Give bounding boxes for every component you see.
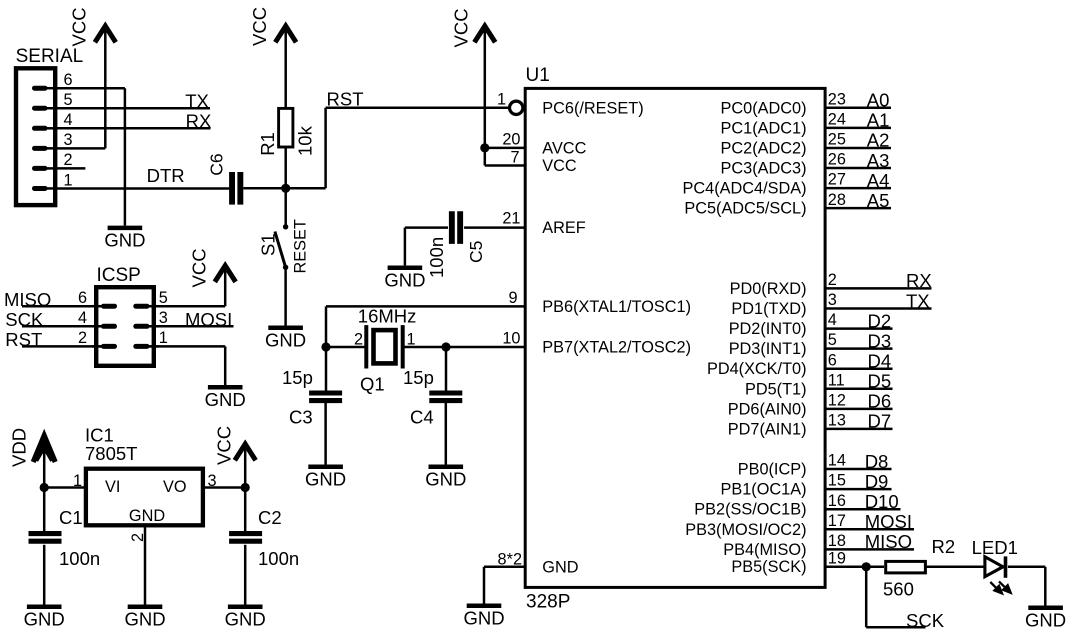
- switch S1: [258, 219, 310, 273]
- svg-text:C6: C6: [206, 153, 226, 175]
- connector J-SERIAL body: [16, 68, 55, 205]
- U1 pin 23 wire: [825, 90, 892, 111]
- svg-text:4: 4: [63, 111, 72, 129]
- wire SERIAL pin3 to VCC: [57, 28, 105, 148]
- svg-text:2: 2: [63, 151, 72, 169]
- svg-text:10k: 10k: [295, 125, 316, 156]
- node AVCC junction: [480, 143, 489, 152]
- U1 pin 28 wire: [825, 190, 892, 211]
- svg-text:ICSP: ICSP: [97, 265, 141, 286]
- node XTAL2 junction: [441, 342, 450, 351]
- svg-text:23: 23: [828, 90, 846, 108]
- LED1 emission arrows: [990, 581, 1010, 593]
- svg-text:PD4(XCK/T0): PD4(XCK/T0): [707, 360, 807, 378]
- pin label PB5(SCK): [731, 558, 806, 576]
- ICSP pin 1: [136, 329, 168, 347]
- pin label GND (U1): [542, 558, 578, 576]
- pin label AVCC: [542, 139, 586, 157]
- wire ICSP pin5 to VCC: [147, 268, 225, 307]
- U1 pin 17 wire: [825, 511, 915, 532]
- connector ICSP body: [96, 287, 154, 366]
- svg-text:1: 1: [497, 90, 506, 108]
- pin label PD5(T1): [745, 380, 807, 398]
- svg-text:5: 5: [63, 91, 72, 109]
- U1 pin10 number: [502, 330, 520, 348]
- net label MOSI: [185, 309, 232, 330]
- power VCC (SERIAL): [69, 7, 116, 46]
- wire LED to GND: [1008, 567, 1045, 606]
- SERIAL pin 1: [35, 171, 73, 189]
- svg-text:RST: RST: [327, 88, 364, 109]
- ICSP pin 2: [78, 329, 115, 347]
- svg-text:PC2(ADC2): PC2(ADC2): [721, 139, 807, 157]
- svg-text:VCC: VCC: [451, 8, 472, 47]
- svg-text:PD1(TXD): PD1(TXD): [731, 300, 806, 318]
- connector ICSP label: [97, 265, 141, 286]
- svg-text:AVCC: AVCC: [542, 139, 586, 157]
- pin label PC3(ADC3): [721, 160, 807, 178]
- svg-text:VI: VI: [105, 478, 120, 496]
- U1 pin 18 wire: [825, 531, 915, 552]
- svg-text:PD5(T1): PD5(T1): [745, 380, 807, 398]
- svg-text:1: 1: [159, 329, 168, 347]
- wire VDD to IC1 pin1: [44, 486, 86, 489]
- svg-text:560: 560: [883, 579, 914, 600]
- pin label PC0(ADC0): [721, 99, 807, 117]
- svg-text:C3: C3: [289, 407, 313, 428]
- IC U1 body: [525, 88, 825, 587]
- svg-text:D6: D6: [868, 391, 892, 412]
- svg-text:20: 20: [502, 131, 520, 149]
- net label RST (ICSP): [5, 329, 42, 350]
- U1 pin 13 wire: [825, 411, 893, 432]
- svg-text:MISO: MISO: [4, 289, 51, 310]
- svg-text:PC4(ADC4/SDA): PC4(ADC4/SDA): [683, 180, 807, 198]
- crystal Q1: [354, 306, 416, 395]
- wire IC1 pin3 to VCC: [203, 486, 245, 489]
- wire junction to pin10: [446, 346, 526, 349]
- svg-text:D7: D7: [868, 411, 892, 432]
- svg-text:27: 27: [828, 171, 846, 189]
- wire C6 to junction: [243, 187, 325, 190]
- ground (LED1): [1025, 608, 1066, 631]
- svg-text:12: 12: [828, 391, 846, 409]
- pin label PC1(ADC1): [721, 119, 807, 137]
- SERIAL pin 4: [35, 111, 73, 129]
- wire C2 to GND: [244, 545, 247, 605]
- wire RST icsp: [22, 345, 104, 348]
- capacitor C6: [206, 153, 240, 204]
- pin label VCC: [542, 157, 577, 175]
- ground (ICSP): [205, 387, 246, 410]
- svg-text:25: 25: [828, 131, 846, 149]
- svg-text:PD2(INT0): PD2(INT0): [729, 320, 807, 338]
- svg-text:PB1(OC1A): PB1(OC1A): [721, 481, 807, 499]
- capacitor C4: [403, 367, 462, 428]
- svg-text:GND: GND: [542, 558, 578, 576]
- svg-text:1: 1: [73, 472, 82, 490]
- pin label PD7(AIN1): [728, 420, 807, 438]
- svg-text:GND: GND: [265, 330, 306, 351]
- svg-text:R1: R1: [257, 132, 278, 156]
- svg-text:SERIAL: SERIAL: [16, 46, 84, 67]
- wire ICSP pin3 MOSI: [147, 325, 234, 328]
- svg-text:VCC: VCC: [542, 157, 577, 175]
- svg-text:21: 21: [502, 210, 520, 228]
- svg-text:GND: GND: [24, 609, 65, 630]
- ground (C3): [305, 467, 346, 490]
- svg-text:VO: VO: [163, 478, 187, 496]
- ground (SERIAL): [104, 228, 145, 251]
- wire SERIAL pin4 RX: [57, 127, 211, 130]
- svg-text:D8: D8: [865, 451, 889, 472]
- wire SCK net: [866, 567, 925, 628]
- wire SERIAL pin5 TX: [57, 107, 210, 110]
- svg-text:16: 16: [828, 492, 846, 510]
- pin label PC5(ADC5/SCL): [684, 200, 806, 218]
- svg-text:S1: S1: [258, 233, 279, 256]
- U1 pin 12 wire: [825, 391, 893, 412]
- wire C1 to GND: [43, 545, 46, 605]
- svg-text:PB2(SS/OC1B): PB2(SS/OC1B): [694, 501, 806, 519]
- svg-text:PC1(ADC1): PC1(ADC1): [721, 119, 807, 137]
- ICSP pin 6: [78, 289, 115, 307]
- pin label PD2(INT0): [729, 320, 807, 338]
- wire junction to crystal pin2: [326, 346, 366, 349]
- svg-text:GND: GND: [124, 609, 165, 630]
- ground (C2): [225, 607, 266, 630]
- svg-text:PB5(SCK): PB5(SCK): [731, 558, 806, 576]
- pin label PC6(/RESET): [542, 99, 643, 117]
- svg-text:100n: 100n: [426, 237, 447, 278]
- wire C3 to GND: [324, 403, 327, 465]
- U1 pin 24 wire: [825, 110, 892, 131]
- svg-text:TX: TX: [185, 91, 209, 112]
- svg-text:PD6(AIN0): PD6(AIN0): [728, 400, 807, 418]
- svg-text:D9: D9: [865, 471, 889, 492]
- pin label PB0(ICP): [738, 461, 807, 479]
- svg-text:PD7(AIN1): PD7(AIN1): [728, 420, 807, 438]
- wire VCC to pin20: [484, 28, 487, 148]
- IC U1 value 328P: [526, 592, 570, 613]
- ground (IC1): [124, 607, 165, 630]
- svg-text:D3: D3: [868, 330, 892, 351]
- wire C4 top: [445, 347, 448, 391]
- svg-text:D5: D5: [868, 371, 892, 392]
- svg-text:6: 6: [78, 289, 87, 307]
- power VCC (U1): [451, 8, 496, 47]
- pin label PB7(XTAL2/TOSC2): [542, 339, 691, 357]
- U1 pin1 circle: [497, 90, 523, 114]
- svg-text:MISO: MISO: [865, 531, 912, 552]
- svg-text:2: 2: [354, 331, 363, 349]
- svg-text:VCC: VCC: [249, 7, 270, 46]
- svg-text:RESET: RESET: [292, 219, 310, 273]
- pin label PD3(INT1): [729, 340, 807, 358]
- svg-text:PC5(ADC5/SCL): PC5(ADC5/SCL): [684, 200, 806, 218]
- ground (U1): [463, 606, 504, 629]
- node VCC junction (IC1): [241, 483, 250, 492]
- pin label PB6(XTAL1/TOSC1): [542, 298, 691, 316]
- svg-text:RX: RX: [906, 270, 932, 291]
- svg-text:PB6(XTAL1/TOSC1): PB6(XTAL1/TOSC1): [542, 298, 691, 316]
- svg-text:24: 24: [828, 110, 846, 128]
- svg-text:13: 13: [828, 412, 846, 430]
- wire U1 GND: [484, 567, 526, 604]
- svg-text:15p: 15p: [282, 367, 313, 388]
- capacitor C3: [282, 367, 342, 428]
- pin label PD4(XCK/T0): [707, 360, 807, 378]
- svg-text:9: 9: [508, 289, 517, 307]
- power VCC (IC1): [214, 426, 256, 465]
- wire MISO: [22, 305, 104, 308]
- capacitor C2: [229, 507, 299, 569]
- U1 GND pin 8*2: [498, 550, 522, 568]
- U1 pin20 number: [502, 131, 520, 149]
- U1 pin 11 wire: [825, 371, 893, 392]
- U1 pin21 wire+number: [502, 210, 520, 228]
- svg-text:5: 5: [828, 331, 837, 349]
- ICSP pin 3: [136, 309, 168, 327]
- U1 pin 4 wire: [825, 310, 893, 331]
- capacitor C1: [29, 507, 101, 569]
- wire S1 to GND: [284, 267, 287, 325]
- svg-text:PC3(ADC3): PC3(ADC3): [721, 160, 807, 178]
- wire R2 to LED: [926, 566, 985, 569]
- svg-text:PC6(/RESET): PC6(/RESET): [542, 99, 643, 117]
- U1 pin 25 wire: [825, 130, 892, 151]
- svg-text:11: 11: [828, 371, 845, 389]
- wire VDD down: [43, 438, 46, 534]
- wire ICSP pin1 to GND: [147, 346, 225, 385]
- ICSP pin 5: [136, 289, 168, 307]
- regulator IC1: [73, 425, 217, 526]
- LED LED1: [972, 537, 1018, 578]
- svg-text:14: 14: [828, 452, 846, 470]
- capacitor C5: [426, 211, 486, 278]
- pin label PB3(MOSI/OC2): [685, 521, 806, 539]
- svg-text:1: 1: [63, 171, 72, 189]
- ground (C5): [384, 268, 425, 291]
- svg-text:VCC: VCC: [189, 248, 210, 287]
- ground (C4): [425, 467, 466, 490]
- net label DTR: [147, 165, 185, 186]
- svg-text:VCC: VCC: [69, 7, 90, 46]
- svg-text:GND: GND: [1025, 610, 1066, 631]
- svg-text:C4: C4: [410, 407, 434, 428]
- svg-text:GND: GND: [205, 389, 246, 410]
- U1 pin 15 wire: [825, 471, 892, 492]
- svg-text:PD0(RXD): PD0(RXD): [730, 280, 807, 298]
- U1 pin 19 wire: [825, 549, 885, 567]
- svg-text:D4: D4: [868, 351, 892, 372]
- svg-text:PD3(INT1): PD3(INT1): [729, 340, 807, 358]
- svg-text:SCK: SCK: [5, 309, 44, 330]
- pin label PC4(ADC4/SDA): [683, 180, 807, 198]
- wire pin9 to crystal: [326, 306, 526, 347]
- ground (C1): [24, 607, 65, 630]
- svg-text:28: 28: [828, 191, 846, 209]
- pin label PB4(MISO): [723, 541, 806, 559]
- wire junction to RST riser: [324, 108, 327, 189]
- svg-text:C1: C1: [59, 507, 83, 528]
- svg-text:VCC: VCC: [214, 426, 235, 465]
- svg-text:26: 26: [828, 151, 846, 169]
- svg-text:D2: D2: [868, 310, 892, 331]
- svg-text:17: 17: [828, 512, 846, 530]
- resistor R2: [883, 536, 955, 600]
- svg-text:AREF: AREF: [542, 219, 585, 237]
- svg-text:19: 19: [828, 549, 846, 567]
- svg-text:2: 2: [78, 329, 87, 347]
- node VDD junction: [40, 483, 49, 492]
- svg-text:PC0(ADC0): PC0(ADC0): [721, 99, 807, 117]
- svg-text:15: 15: [828, 472, 846, 490]
- SERIAL pin 3: [35, 131, 73, 149]
- wire crystal pin1 to junction: [403, 346, 446, 349]
- node SCK junction: [862, 562, 871, 571]
- SERIAL pin 5: [35, 91, 73, 109]
- U1 pin 6 wire: [825, 351, 893, 372]
- svg-text:MOSI: MOSI: [185, 309, 232, 330]
- svg-text:Q1: Q1: [360, 374, 385, 395]
- svg-text:LED1: LED1: [972, 537, 1018, 558]
- pin label PD6(AIN0): [728, 400, 807, 418]
- svg-text:A0: A0: [867, 90, 890, 111]
- pin label PB2(SS/OC1B): [694, 501, 806, 519]
- wire SCK: [22, 325, 104, 328]
- svg-text:R2: R2: [932, 536, 956, 557]
- svg-text:3: 3: [159, 309, 168, 327]
- svg-text:GND: GND: [129, 507, 165, 525]
- IC1 pin2 label: [129, 533, 147, 542]
- svg-text:3: 3: [63, 131, 72, 149]
- resistor R1: [257, 108, 316, 156]
- svg-text:GND: GND: [463, 608, 504, 629]
- svg-text:TX: TX: [906, 290, 930, 311]
- svg-text:GND: GND: [305, 469, 346, 490]
- U1 pin 27 wire: [825, 170, 892, 191]
- ICSP pin 4: [78, 309, 115, 327]
- power VCC (R1): [249, 7, 296, 46]
- svg-text:A3: A3: [867, 150, 890, 171]
- pin label PD0(RXD): [730, 280, 807, 298]
- U1 pin 14 wire: [825, 451, 892, 472]
- svg-text:10: 10: [502, 330, 520, 348]
- connector SERIAL label: [16, 46, 84, 67]
- U1 pin 16 wire: [825, 491, 901, 512]
- U1 pin 26 wire: [825, 150, 892, 171]
- wire SERIAL pin6 to GND: [57, 88, 125, 225]
- svg-text:D10: D10: [865, 491, 899, 512]
- svg-text:PB3(MOSI/OC2): PB3(MOSI/OC2): [685, 521, 806, 539]
- svg-text:100n: 100n: [258, 548, 299, 569]
- ground (S1): [265, 328, 306, 351]
- svg-text:15p: 15p: [403, 367, 434, 388]
- svg-text:6: 6: [63, 71, 72, 89]
- svg-text:3: 3: [828, 291, 837, 309]
- IC U1 label: [526, 65, 550, 86]
- wire C4 to GND: [445, 403, 448, 465]
- wire SERIAL pin2 stub: [57, 167, 85, 170]
- svg-text:SCK: SCK: [906, 610, 945, 631]
- wire pin20: [485, 147, 526, 150]
- svg-text:100n: 100n: [59, 548, 100, 569]
- svg-text:4: 4: [828, 311, 837, 329]
- svg-text:VDD: VDD: [9, 428, 30, 467]
- wire VCC down to C2: [244, 446, 247, 534]
- svg-text:18: 18: [828, 532, 846, 550]
- pin label PB1(OC1A): [721, 481, 807, 499]
- wire C5 to pin21: [464, 226, 526, 229]
- wire RST to U1 pin1: [326, 107, 509, 110]
- pin label PC2(ADC2): [721, 139, 807, 157]
- svg-text:A5: A5: [867, 190, 890, 211]
- svg-text:C5: C5: [466, 241, 486, 263]
- power VDD: [9, 428, 56, 467]
- svg-text:A1: A1: [867, 110, 890, 131]
- wire junction to S1: [284, 188, 287, 226]
- wire R1 to junction: [284, 147, 287, 188]
- svg-text:GND: GND: [225, 609, 266, 630]
- svg-text:GND: GND: [104, 230, 145, 251]
- svg-text:RST: RST: [5, 329, 42, 350]
- wire SERIAL pin1 DTR: [57, 187, 229, 190]
- svg-text:7: 7: [510, 148, 519, 166]
- svg-text:C2: C2: [258, 507, 282, 528]
- wire VCC to R1: [284, 28, 287, 108]
- svg-text:A4: A4: [867, 170, 890, 191]
- svg-text:U1: U1: [526, 65, 550, 86]
- net label SCK: [5, 309, 44, 330]
- power VCC (ICSP): [189, 248, 236, 287]
- svg-text:7805T: 7805T: [85, 443, 137, 464]
- svg-text:2: 2: [828, 271, 837, 289]
- U1 pin 3 wire: [825, 290, 932, 311]
- svg-text:6: 6: [828, 351, 837, 369]
- U1 pin 2 wire: [825, 270, 932, 291]
- pin label AREF: [542, 219, 585, 237]
- svg-text:A2: A2: [867, 130, 890, 151]
- svg-text:MOSI: MOSI: [865, 511, 912, 532]
- SERIAL pin 6: [35, 71, 73, 89]
- svg-text:PB4(MISO): PB4(MISO): [723, 541, 806, 559]
- svg-text:16MHz: 16MHz: [358, 306, 417, 327]
- U1 pin 5 wire: [825, 330, 893, 351]
- svg-text:GND: GND: [425, 469, 466, 490]
- svg-text:328P: 328P: [526, 592, 570, 613]
- U1 pin9 number: [508, 289, 517, 307]
- svg-text:DTR: DTR: [147, 165, 185, 186]
- SERIAL pin 2: [35, 151, 73, 169]
- pin label PD1(TXD): [731, 300, 806, 318]
- net label TX: [185, 91, 209, 112]
- svg-text:PB7(XTAL2/TOSC2): PB7(XTAL2/TOSC2): [542, 339, 691, 357]
- svg-text:RX: RX: [186, 111, 212, 132]
- net label RX: [186, 111, 212, 132]
- svg-text:5: 5: [159, 289, 168, 307]
- svg-text:4: 4: [78, 309, 87, 327]
- node XTAL1 junction: [321, 342, 330, 351]
- U1 pin7 number: [510, 148, 519, 166]
- wire C3 top: [325, 347, 328, 391]
- wire to pin7: [485, 148, 526, 166]
- net label SCK (bottom): [906, 610, 945, 631]
- wire IC1 GND: [144, 525, 147, 605]
- node RST junction: [281, 184, 290, 193]
- wire C5 to GND: [405, 228, 448, 266]
- net label MISO: [4, 289, 51, 310]
